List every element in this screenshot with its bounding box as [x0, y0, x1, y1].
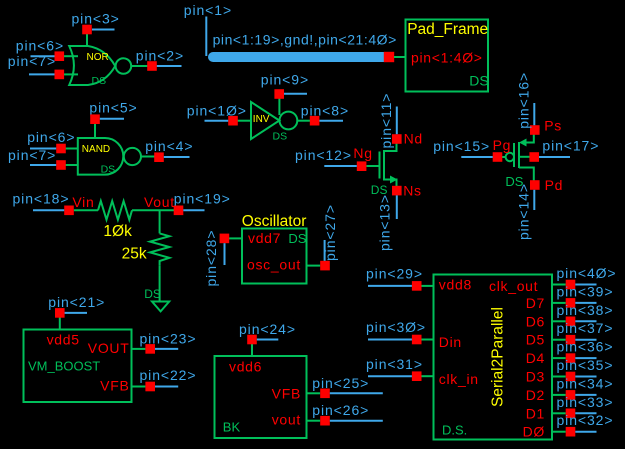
node Nd pin square	[392, 134, 402, 144]
NOR gate body	[69, 46, 115, 85]
INV gate triangle	[251, 102, 279, 139]
svg-text:DS: DS	[288, 231, 306, 246]
wire pin26 blue	[330, 420, 383, 422]
pin<38> pin square	[566, 317, 576, 327]
resistor R1 10k horizontal	[98, 201, 132, 220]
svg-text:pin<21>: pin<21>	[48, 294, 105, 310]
svg-text:clk_out: clk_out	[489, 278, 538, 294]
wire pin18 blue	[33, 209, 64, 211]
wire pin36 blue	[575, 357, 596, 359]
svg-text:1Øk: 1Øk	[103, 223, 132, 240]
wire vout green stub (bk)	[307, 420, 321, 422]
wire pin7 blue	[29, 73, 55, 75]
transistor M2 PMOS gate bar	[513, 143, 515, 167]
wire pin6 green stub into gate	[63, 55, 78, 57]
svg-text:BK: BK	[223, 420, 241, 435]
svg-text:D4: D4	[526, 350, 545, 366]
pin<25> pin square	[320, 389, 330, 399]
svg-text:D6: D6	[526, 313, 545, 329]
svg-text:pin<14>: pin<14>	[515, 183, 531, 240]
node Ng pin square	[357, 161, 367, 171]
svg-text:Oscillator: Oscillator	[242, 213, 307, 230]
wire pin23 blue	[155, 348, 178, 350]
svg-text:Ps: Ps	[544, 117, 562, 133]
wire pin4 blue	[164, 156, 190, 158]
pin<21> pin square	[55, 308, 65, 318]
svg-text:DS: DS	[144, 287, 161, 301]
pin<31> pin square	[412, 371, 422, 381]
svg-text:vout: vout	[272, 412, 301, 428]
pin<6> pin square (nand)	[56, 144, 66, 154]
wire pin7 blue (nand)	[30, 164, 56, 166]
wire pin6 blue (nand)	[30, 148, 56, 150]
wire VFB green stub (bk)	[307, 392, 321, 394]
wire pin5 blue	[100, 118, 124, 120]
svg-text:pin<23>: pin<23>	[140, 330, 197, 346]
svg-text:pin<39>: pin<39>	[557, 283, 614, 299]
pin<5> pin square	[90, 114, 100, 124]
wire pin3 blue	[92, 29, 115, 31]
svg-text:pin<29>: pin<29>	[366, 265, 423, 281]
svg-text:pin<2>: pin<2>	[136, 47, 184, 63]
pin<34> pin square	[566, 390, 576, 400]
wire pin6 blue	[31, 55, 55, 57]
svg-text:Ns: Ns	[403, 183, 422, 199]
svg-text:Vin: Vin	[72, 194, 94, 210]
NAND gate body	[78, 138, 123, 175]
svg-text:D1: D1	[526, 405, 545, 421]
svg-text:pin<36>: pin<36>	[557, 339, 614, 355]
pin<8> pin square	[310, 116, 320, 126]
svg-text:pin<18>: pin<18>	[13, 191, 70, 207]
wire pin33 blue	[575, 412, 596, 414]
svg-text:osc_out: osc_out	[247, 257, 301, 273]
svg-text:D7: D7	[526, 295, 545, 311]
wire pin15 blue	[461, 156, 492, 158]
svg-text:NOR: NOR	[87, 52, 109, 63]
svg-text:D3: D3	[526, 369, 545, 385]
wire pin8 blue	[319, 120, 343, 122]
svg-text:pin<13>: pin<13>	[377, 194, 393, 251]
svg-text:VM_BOOST: VM_BOOST	[28, 358, 100, 373]
pin<22> pin square	[145, 382, 155, 392]
pin<33> pin square	[566, 409, 576, 419]
transistor M2 PMOS drain path	[519, 168, 534, 181]
svg-text:pin<1:4Ø>: pin<1:4Ø>	[411, 50, 483, 66]
wire Vout green	[132, 209, 174, 211]
svg-text:clk_in: clk_in	[439, 371, 479, 387]
svg-text:pin<37>: pin<37>	[557, 320, 614, 336]
wire pin7 green stub into gate	[63, 73, 78, 75]
wire pin9 green stub down to gate	[278, 99, 280, 116]
svg-text:DS: DS	[469, 72, 488, 88]
node Ps pin square	[530, 125, 540, 135]
svg-text:vdd5: vdd5	[47, 331, 80, 347]
wire pin1 vertical	[205, 17, 207, 57]
svg-text:VFB: VFB	[100, 377, 129, 393]
wire vdd7 green stub	[229, 237, 242, 239]
wire pin3 stub green down to gate	[86, 33, 88, 46]
pin<24> pin square	[247, 335, 257, 345]
wire pin27 blue vertical	[324, 240, 326, 261]
wire to ground green	[159, 265, 161, 301]
wire D0 green stub	[552, 431, 566, 433]
wire VFB green stub	[132, 386, 146, 388]
svg-text:pin<12>: pin<12>	[295, 147, 352, 163]
svg-text:pin<28>: pin<28>	[203, 230, 219, 287]
wire D1 green stub	[552, 412, 566, 414]
resistor R2 25k vertical	[150, 233, 169, 265]
svg-text:DS: DS	[273, 131, 288, 143]
wire INV output green stub	[297, 120, 310, 122]
svg-text:pin<19>: pin<19>	[174, 191, 231, 207]
pin<30> pin square	[412, 335, 422, 345]
bus pin<1:19>,gnd!,pin<21:40>	[213, 52, 387, 62]
wire bus to padframe green	[394, 56, 406, 58]
bus end pin square	[384, 52, 394, 62]
svg-text:pin<1Ø>: pin<1Ø>	[187, 102, 247, 118]
svg-text:pin<6>: pin<6>	[16, 38, 64, 54]
pin<2> pin square	[147, 61, 157, 71]
svg-text:D5: D5	[526, 332, 545, 348]
pin<32> pin square	[566, 427, 576, 437]
node bulk pin square (pin17)	[529, 152, 539, 162]
transistor M2 PMOS source arrow	[519, 139, 527, 147]
wire pin11 blue vertical	[396, 107, 398, 135]
wire pin9 blue	[284, 93, 307, 95]
svg-text:Pg: Pg	[493, 137, 512, 153]
svg-text:pin<22>: pin<22>	[140, 367, 197, 383]
svg-text:pin<7>: pin<7>	[8, 53, 56, 69]
svg-text:pin<17>: pin<17>	[542, 138, 599, 154]
wire vdd8 green stub	[422, 285, 434, 287]
wire D5 green stub	[552, 339, 566, 341]
wire pin10 blue	[205, 120, 229, 122]
NOR gate output bubble	[116, 58, 132, 74]
svg-text:pin<34>: pin<34>	[557, 375, 614, 391]
transistor M2 PMOS source path	[521, 135, 534, 143]
svg-text:Serial2Parallel: Serial2Parallel	[490, 307, 507, 407]
pin<29> pin square	[412, 281, 422, 291]
pin<7> pin square	[55, 70, 65, 80]
svg-text:vdd6: vdd6	[229, 359, 262, 375]
node Pd pin square	[530, 180, 540, 190]
svg-text:INV: INV	[253, 114, 270, 125]
svg-text:pin<24>: pin<24>	[239, 321, 296, 337]
pin<4> pin square	[154, 152, 164, 162]
svg-text:Din: Din	[439, 334, 462, 350]
wire pin7 green stub into gate	[65, 164, 78, 166]
svg-text:pin<26>: pin<26>	[312, 402, 369, 418]
svg-text:Vout: Vout	[144, 194, 175, 210]
wire pin2 blue	[157, 65, 182, 67]
wire pin29 blue	[368, 285, 412, 287]
pin<19> pin square	[174, 206, 184, 216]
svg-text:pin<33>: pin<33>	[557, 394, 614, 410]
wire pin22 blue	[155, 386, 178, 388]
node Pg pin square	[493, 152, 503, 162]
transistor M1 NMOS source arrow	[390, 176, 398, 184]
svg-text:pin<16>: pin<16>	[516, 72, 532, 129]
transistor M2 PMOS bulk wire	[519, 156, 530, 158]
svg-text:Pd: Pd	[545, 177, 564, 193]
svg-text:pin<11>: pin<11>	[378, 93, 394, 149]
pin<23> pin square	[145, 344, 155, 354]
svg-text:pin<4>: pin<4>	[145, 138, 193, 154]
wire pin34 blue	[575, 394, 596, 396]
svg-text:vdd8: vdd8	[439, 277, 472, 293]
pin<27> pin square	[320, 261, 330, 271]
pin<3> pin square	[82, 25, 92, 35]
svg-text:pin<35>: pin<35>	[557, 357, 614, 373]
wire clk_in green stub	[422, 375, 434, 377]
svg-text:pin<5>: pin<5>	[89, 100, 137, 116]
svg-text:pin<4Ø>: pin<4Ø>	[557, 265, 617, 281]
svg-text:D.S.: D.S.	[442, 422, 467, 437]
wire pin24 blue	[257, 339, 279, 341]
Serial2Parallel instance box	[434, 275, 553, 440]
NAND gate output bubble	[124, 148, 141, 165]
pin<18> pin square	[64, 206, 74, 216]
svg-text:vdd7: vdd7	[248, 230, 281, 246]
node Vout junction vertical wire	[159, 210, 161, 233]
svg-text:pin<38>: pin<38>	[557, 302, 614, 318]
wire pin32 blue	[575, 431, 596, 433]
wire gate green to Ng	[367, 165, 380, 167]
svg-text:pin<31>: pin<31>	[366, 356, 423, 372]
wire pin14 blue vertical	[533, 190, 535, 210]
wire pin40 blue	[575, 284, 596, 286]
svg-text:25k: 25k	[122, 245, 147, 262]
wire pin28 blue vertical	[224, 243, 226, 265]
svg-text:pin<9>: pin<9>	[261, 71, 309, 87]
wire pin30 blue	[368, 339, 412, 341]
wire vdd6 green stub down	[251, 344, 253, 356]
wire NAND output green stub	[141, 156, 155, 158]
transistor M1 NMOS gate bar	[379, 152, 381, 179]
wire pin37 blue	[575, 339, 596, 341]
wire pin5 stub green down into gate	[94, 124, 96, 139]
BK instance box	[215, 356, 307, 438]
wire clk_out green stub	[552, 284, 566, 286]
wire pin6 green stub into gate	[65, 148, 78, 150]
pin<36> pin square	[566, 353, 576, 363]
Oscillator instance box	[242, 229, 307, 284]
svg-text:DS: DS	[101, 164, 116, 176]
wire D2 green stub	[552, 394, 566, 396]
node Ns pin square	[392, 186, 402, 196]
wire gate green from Pg	[502, 156, 506, 158]
svg-text:pin<6>: pin<6>	[27, 129, 75, 145]
svg-text:NAND: NAND	[82, 144, 110, 155]
pin<26> pin square	[320, 416, 330, 426]
pin<37> pin square	[566, 335, 576, 345]
svg-text:pin<3Ø>: pin<3Ø>	[366, 319, 426, 335]
svg-text:VFB: VFB	[272, 385, 301, 401]
ground symbol	[152, 302, 169, 312]
svg-text:pin<1:19>,gnd!,pin<21:4Ø>: pin<1:19>,gnd!,pin<21:4Ø>	[213, 32, 397, 48]
wire pin13 blue vertical	[396, 195, 398, 219]
svg-text:VOUT: VOUT	[88, 340, 130, 356]
VM_BOOST instance box	[24, 330, 132, 403]
INV gate output bubble	[280, 112, 298, 130]
svg-text:DØ: DØ	[523, 424, 545, 440]
pin<28> pin square	[220, 234, 230, 244]
wire vdd5 green stub down	[59, 318, 61, 330]
transistor M1 NMOS drain path	[384, 144, 397, 187]
wire NOR output green stub	[131, 65, 148, 67]
transistor M2 PMOS channel bar	[518, 142, 520, 168]
svg-text:DS: DS	[92, 75, 107, 87]
svg-text:pin<32>: pin<32>	[557, 412, 614, 428]
svg-text:pin<1>: pin<1>	[184, 2, 232, 18]
pin<39> pin square	[566, 298, 576, 308]
wire pin17 blue	[539, 156, 570, 158]
pin<10> pin square	[228, 116, 238, 126]
wire pin21 blue	[65, 312, 87, 314]
wire pin39 blue	[575, 302, 596, 304]
svg-text:pin<7>: pin<7>	[8, 147, 56, 163]
pin<35> pin square	[566, 372, 576, 382]
wire Din green stub	[422, 339, 434, 341]
wire Vin green	[74, 209, 98, 211]
wire osc_out green stub	[307, 265, 321, 267]
pin<9> pin square	[274, 89, 284, 99]
wire D6 green stub	[552, 320, 566, 322]
wire VOUT green stub	[132, 348, 146, 350]
svg-text:pin<8>: pin<8>	[301, 102, 349, 118]
wire pin12 blue	[324, 165, 357, 167]
svg-text:Ng: Ng	[353, 145, 372, 161]
svg-text:Pad_Frame: Pad_Frame	[407, 21, 488, 38]
pin<6> pin square	[55, 51, 65, 61]
wire pin10 green stub into gate	[238, 120, 252, 122]
wire pin38 blue	[575, 320, 596, 322]
wire D3 green stub	[552, 376, 566, 378]
wire D7 green stub	[552, 302, 566, 304]
wire pin19 blue	[183, 209, 204, 211]
pin<40> pin square	[566, 280, 576, 290]
wire pin25 blue	[330, 392, 383, 394]
svg-text:D2: D2	[526, 387, 545, 403]
Pad_Frame instance box U_pad	[406, 20, 489, 92]
svg-text:pin<3>: pin<3>	[72, 10, 120, 26]
wire D4 green stub	[552, 357, 566, 359]
svg-text:Nd: Nd	[404, 131, 423, 147]
pin<7> pin square (nand)	[56, 160, 66, 170]
transistor M2 PMOS gate bubble	[506, 153, 514, 161]
svg-text:pin<27>: pin<27>	[322, 204, 338, 261]
wire pin35 blue	[575, 376, 596, 378]
svg-text:pin<15>: pin<15>	[433, 138, 490, 154]
wire pin16 blue vertical	[533, 103, 535, 125]
wire pin31 blue	[368, 375, 412, 377]
